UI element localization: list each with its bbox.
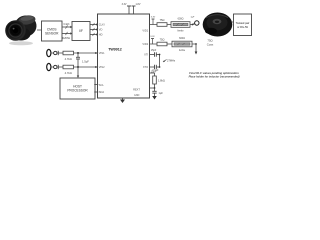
svg-text:TW9912: TW9912	[108, 48, 122, 52]
svg-text:Place holder for inductor (rec: Place holder for inductor (recommended)	[189, 75, 240, 79]
svg-text:3.3V: 3.3V	[150, 36, 155, 38]
svg-text:600Ω: 600Ω	[179, 37, 185, 40]
svg-text:Final RLC values pending optim: Final RLC values pending optimization	[189, 71, 239, 75]
host processor block	[60, 78, 95, 99]
svg-text:Coax: Coax	[207, 43, 214, 47]
camera lens photo	[5, 14, 38, 45]
CMOS sensor block	[42, 21, 63, 41]
svg-text:XTO: XTO	[143, 65, 148, 69]
svg-text:Twisted pair: Twisted pair	[236, 21, 250, 25]
wire SDA	[94, 91, 99, 93]
svg-text:1µF: 1µF	[191, 17, 195, 19]
svg-text:CLKI: CLKI	[99, 23, 105, 27]
wire CLK arrow	[62, 25, 72, 28]
capacitor C5 1.5uF	[152, 88, 163, 96]
svg-text:ferrite: ferrite	[179, 49, 186, 52]
svg-text:ferrite: ferrite	[177, 30, 184, 33]
svg-text:0.1µF: 0.1µF	[153, 70, 160, 72]
coax coil photo	[203, 13, 233, 37]
wire video out 1	[150, 24, 193, 26]
node A junction	[77, 52, 79, 54]
resistor R1 4.7k	[63, 51, 74, 61]
wire out 2 drop	[195, 44, 198, 55]
ferrite bead FB2	[172, 37, 192, 52]
node B junction	[77, 66, 79, 68]
svg-text:VIN2: VIN2	[99, 65, 105, 69]
wire CLKI	[90, 23, 98, 26]
wire coil to load	[231, 21, 234, 23]
capacitor C3 crystal load top	[150, 49, 160, 57]
resistor R3 75 ohm	[157, 18, 167, 26]
node D junction	[195, 43, 197, 45]
svg-text:VD: VD	[99, 28, 103, 32]
svg-text:REXT: REXT	[133, 88, 140, 92]
svg-text:15pF: 15pF	[151, 49, 157, 52]
svg-text:1.8kΩ: 1.8kΩ	[158, 78, 165, 82]
note text	[189, 71, 240, 79]
wire lens to sensor	[37, 29, 42, 31]
IC U1 TW9912	[98, 14, 150, 98]
resistor R2 4.7k	[63, 65, 74, 75]
power tap 3.3V out2	[150, 36, 155, 44]
node C junction	[192, 24, 194, 26]
power 3.3V supply top	[122, 3, 131, 14]
svg-text:27MHz: 27MHz	[167, 58, 176, 62]
wire video out 2	[150, 43, 197, 45]
svg-text:SENSOR: SENSOR	[45, 31, 59, 35]
svg-text:75Ω: 75Ω	[160, 38, 165, 42]
output jack J3	[193, 21, 199, 25]
wire input 1	[58, 52, 97, 54]
svg-text:PROCESSOR: PROCESSOR	[67, 89, 88, 93]
svg-text:HD: HD	[99, 33, 103, 37]
svg-text:VID2: VID2	[142, 42, 148, 46]
net CLK label	[63, 22, 70, 26]
RCA jack J2	[47, 63, 59, 70]
crystal Y1	[159, 54, 176, 68]
wire SCL	[94, 84, 99, 86]
ferrite bead FB1	[171, 18, 190, 33]
resistor R4 75 ohm	[157, 38, 167, 46]
svg-text:4.7kΩ: 4.7kΩ	[65, 57, 72, 61]
wire HD	[90, 33, 98, 36]
RCA jack J1	[47, 49, 59, 56]
wire VD	[90, 28, 98, 31]
svg-text:75Ω: 75Ω	[160, 18, 165, 22]
capacitor C1 1.5uF	[76, 53, 89, 67]
power 1.8V supply top	[132, 3, 141, 14]
ground IC bottom	[120, 98, 125, 103]
svg-text:GND: GND	[134, 94, 140, 97]
wire input 2	[58, 66, 97, 68]
svg-text:3.3V: 3.3V	[122, 3, 127, 6]
svg-text:XTI: XTI	[144, 53, 148, 57]
svg-text:DATA: DATA	[62, 36, 71, 40]
svg-text:CLK: CLK	[63, 22, 70, 26]
svg-text:VID1: VID1	[142, 29, 148, 33]
wire to host processor	[77, 67, 79, 78]
wire REXT pin	[150, 87, 156, 89]
svg-text:600Ω: 600Ω	[178, 18, 184, 21]
svg-text:or RG-59: or RG-59	[237, 25, 248, 29]
wire DATA arrow	[62, 32, 72, 35]
power tap 3.3V out1	[151, 16, 156, 24]
svg-text:SCL: SCL	[99, 83, 105, 87]
load block twisted pair	[234, 14, 252, 36]
svg-text:VIN1: VIN1	[99, 51, 105, 55]
resistor R5 REXT	[150, 70, 165, 88]
interface block I/F	[72, 22, 90, 41]
svg-text:4.7kΩ: 4.7kΩ	[65, 71, 72, 75]
coax caption	[207, 39, 214, 47]
svg-text:1.5µF: 1.5µF	[82, 59, 89, 63]
svg-text:1µF: 1µF	[159, 92, 164, 95]
ground right chain	[152, 96, 157, 100]
svg-text:3.3V: 3.3V	[151, 16, 156, 18]
capacitor C2 1uF	[191, 17, 195, 25]
svg-text:SDA: SDA	[99, 90, 105, 94]
svg-text:1.8V: 1.8V	[136, 3, 141, 6]
svg-text:I/F: I/F	[79, 29, 83, 33]
net DATA label	[62, 36, 71, 40]
capacitor C4 crystal load bottom	[150, 65, 160, 74]
